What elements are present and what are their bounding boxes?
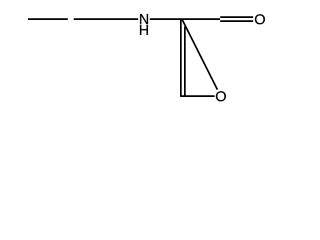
wire double bond C3=O top line	[220, 16, 253, 18]
atom label H	[140, 25, 148, 35]
wire double bond C1=C2 main line	[180, 19, 182, 97]
wire bond C1-O ring diagonal	[182, 20, 217, 90]
wire double bond C3=O bottom line	[220, 20, 253, 22]
wire bond C1-C3	[181, 18, 220, 20]
wire bond N-C1	[150, 18, 182, 20]
atom label N	[140, 14, 148, 24]
atom label O carbonyl	[255, 14, 265, 24]
wire bond CH3-CH2	[28, 18, 68, 20]
wire double bond C1=C2 inner line	[184, 27, 186, 96]
wire bond C2-O ring	[180, 95, 214, 97]
atom label O ring	[216, 91, 226, 101]
wire bond CH2-N	[74, 18, 138, 20]
